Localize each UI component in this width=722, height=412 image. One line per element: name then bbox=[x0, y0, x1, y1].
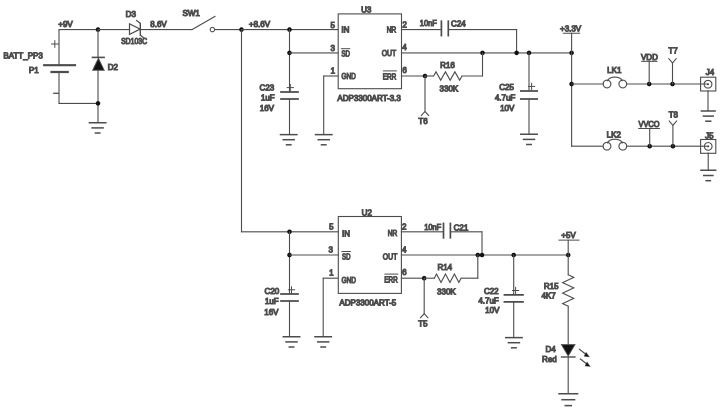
svg-text:4.7uF: 4.7uF bbox=[478, 297, 499, 306]
svg-text:NR: NR bbox=[388, 229, 398, 238]
wire J5 shield to ground bbox=[707, 153, 709, 170]
svg-text:+8.6V: +8.6V bbox=[249, 20, 271, 29]
ground (C22) bbox=[506, 337, 522, 339]
wire C25 to ground bbox=[528, 99, 530, 134]
battery minus marking bbox=[54, 92, 59, 94]
junction node SD branch (U2) bbox=[287, 253, 292, 258]
svg-text:T6: T6 bbox=[418, 117, 428, 126]
junction node R14/OUT bbox=[476, 253, 481, 258]
svg-text:T7: T7 bbox=[668, 47, 678, 56]
svg-text:6: 6 bbox=[402, 66, 407, 75]
svg-text:4: 4 bbox=[402, 43, 407, 52]
svg-text:16V: 16V bbox=[264, 308, 279, 317]
svg-text:4K7: 4K7 bbox=[541, 292, 556, 301]
wire LK2 to J5 bbox=[627, 145, 708, 147]
LED D4 bbox=[562, 345, 575, 356]
svg-text:IN: IN bbox=[342, 229, 350, 238]
wire +3.3V feed down to links bbox=[571, 53, 573, 146]
wire +5V stub bbox=[567, 240, 569, 255]
svg-text:LK2: LK2 bbox=[607, 130, 622, 139]
svg-text:SD: SD bbox=[342, 252, 351, 261]
wire NR pin to C24 bbox=[402, 29, 442, 31]
svg-text:BATT_PP3: BATT_PP3 bbox=[3, 52, 43, 61]
svg-text:VDD: VDD bbox=[641, 53, 658, 62]
wire SD branch to pin 3 bbox=[290, 52, 339, 54]
wire battery negative to ground node bbox=[58, 72, 60, 103]
svg-text:ERR: ERR bbox=[383, 72, 397, 81]
wire J4 shield to ground bbox=[707, 91, 709, 111]
LED D4 light arrows bbox=[580, 349, 586, 354]
svg-text:T8: T8 bbox=[669, 110, 679, 119]
ground (C25) bbox=[521, 133, 537, 135]
wire LK2 row corner bbox=[572, 145, 604, 147]
wire SD branch to U2 pin 3 bbox=[290, 254, 339, 256]
svg-text:8.6V: 8.6V bbox=[150, 20, 167, 29]
ground (J5) bbox=[701, 169, 716, 171]
wire VDD stub bbox=[648, 61, 650, 84]
jumper LK2 bbox=[603, 142, 611, 150]
jumper LK1 bbox=[603, 80, 611, 88]
regulator U2 body bbox=[338, 217, 401, 294]
wire main rail left segment bbox=[59, 29, 98, 31]
wire OUT rail (U2) bbox=[401, 254, 568, 256]
battery P1 bbox=[44, 64, 75, 66]
ground (U2 GND) bbox=[315, 336, 331, 338]
resistor R14 bbox=[424, 277, 434, 279]
junction node C25/OUT bbox=[527, 51, 532, 56]
svg-text:330K: 330K bbox=[440, 84, 459, 93]
svg-text:3: 3 bbox=[330, 44, 335, 53]
svg-text:J4: J4 bbox=[706, 68, 715, 77]
svg-text:+5V: +5V bbox=[561, 231, 576, 240]
diode D3 bbox=[130, 24, 141, 35]
svg-text:IN: IN bbox=[341, 26, 349, 35]
switch SW1 bbox=[192, 16, 215, 29]
ground (U3 GND) bbox=[316, 134, 332, 136]
svg-text:1: 1 bbox=[329, 268, 334, 277]
wire C23 to ground bbox=[289, 99, 291, 135]
svg-text:16V: 16V bbox=[260, 104, 275, 113]
svg-text:5: 5 bbox=[330, 21, 335, 30]
svg-text:NR: NR bbox=[387, 25, 397, 34]
capacitor C25 bbox=[521, 90, 537, 92]
svg-text:C22: C22 bbox=[484, 287, 499, 296]
svg-text:T5: T5 bbox=[418, 320, 428, 329]
junction node T8 bbox=[671, 144, 676, 149]
junction node battery / ground bbox=[96, 101, 101, 106]
svg-text:1: 1 bbox=[331, 67, 336, 76]
junction node +3.3V/OUT bbox=[569, 51, 574, 56]
svg-text:1uF: 1uF bbox=[265, 297, 279, 306]
svg-text:C24: C24 bbox=[451, 20, 466, 29]
svg-text:ADP3300ART-3.3: ADP3300ART-3.3 bbox=[337, 94, 401, 103]
svg-text:+3.3V: +3.3V bbox=[560, 25, 582, 34]
ground (D4) bbox=[559, 393, 578, 395]
wire OUT to C22 bbox=[513, 255, 515, 295]
svg-text:C25: C25 bbox=[499, 83, 514, 92]
wire +3.3V stub bbox=[571, 33, 573, 53]
junction node +8.6V bbox=[239, 27, 244, 32]
wire C20 branch bbox=[289, 232, 291, 294]
wire R14 to OUT rail bbox=[477, 255, 479, 278]
junction node LK1 row bbox=[569, 82, 574, 87]
svg-text:+9V: +9V bbox=[58, 20, 73, 29]
wire rail to U3 pin 5 bbox=[242, 29, 339, 31]
svg-text:C20: C20 bbox=[265, 287, 280, 296]
svg-text:SD: SD bbox=[341, 50, 350, 59]
svg-text:6: 6 bbox=[402, 268, 407, 277]
svg-text:D4: D4 bbox=[545, 345, 556, 354]
wire NR pin to C21 bbox=[401, 231, 443, 233]
svg-text:10nF: 10nF bbox=[424, 223, 441, 232]
resistor R16 bbox=[425, 75, 434, 77]
wire D3 to SW1 bbox=[140, 29, 192, 31]
diode D2 bbox=[93, 56, 105, 58]
wire C22 to ground bbox=[513, 302, 515, 338]
svg-text:4.7uF: 4.7uF bbox=[495, 94, 516, 103]
test point T7 bbox=[672, 63, 674, 84]
wire D4 to ground bbox=[567, 357, 569, 393]
wire C23 branch bbox=[289, 30, 291, 92]
svg-text:LK1: LK1 bbox=[607, 66, 622, 75]
ground (J4) bbox=[701, 110, 715, 112]
svg-text:U3: U3 bbox=[361, 6, 372, 15]
svg-text:330K: 330K bbox=[437, 287, 456, 296]
connector J5 bbox=[701, 140, 716, 154]
capacitor C22 bbox=[504, 294, 523, 296]
test point T8 bbox=[672, 125, 674, 146]
svg-text:2: 2 bbox=[402, 20, 407, 29]
svg-text:GND: GND bbox=[342, 276, 357, 285]
wire +9V rail to battery bbox=[58, 30, 60, 65]
junction node ERR / T5 bbox=[422, 276, 427, 281]
svg-text:10V: 10V bbox=[500, 104, 515, 113]
svg-text:VVCO: VVCO bbox=[639, 120, 660, 129]
wire ERR pin stub bbox=[402, 75, 426, 77]
junction node +5V/OUT bbox=[566, 253, 571, 258]
svg-text:D2: D2 bbox=[108, 63, 119, 72]
battery plus marking bbox=[52, 43, 59, 45]
wire +8.6V feed to U2 bbox=[241, 30, 243, 232]
wire D2 cathode bbox=[97, 30, 99, 58]
svg-text:2: 2 bbox=[402, 222, 407, 231]
svg-text:1uF: 1uF bbox=[261, 94, 275, 103]
svg-text:Red: Red bbox=[542, 355, 557, 364]
svg-text:U2: U2 bbox=[362, 208, 373, 217]
capacitor C23 bbox=[281, 91, 298, 93]
svg-text:10nF: 10nF bbox=[420, 19, 437, 28]
svg-text:C21: C21 bbox=[454, 224, 469, 233]
test point T6 bbox=[424, 76, 426, 112]
wire LK1 to J4 bbox=[627, 83, 708, 85]
junction node C22/OUT bbox=[511, 253, 516, 258]
wire VVCO stub bbox=[649, 129, 651, 147]
junction node C24/OUT bbox=[514, 51, 519, 56]
svg-text:R16: R16 bbox=[440, 61, 455, 70]
svg-text:R14: R14 bbox=[437, 263, 452, 272]
svg-text:SD103C: SD103C bbox=[121, 37, 147, 46]
capacitor C21 bbox=[443, 223, 445, 237]
regulator U3 body bbox=[338, 14, 401, 89]
wire U3 GND pin to ground bbox=[324, 75, 339, 77]
capacitor C24 bbox=[440, 21, 442, 35]
svg-text:R15: R15 bbox=[544, 282, 559, 291]
junction node R16/OUT bbox=[480, 51, 485, 56]
resistor R15 bbox=[567, 255, 569, 275]
wire rail to D3 anode bbox=[98, 29, 130, 31]
svg-text:OUT: OUT bbox=[383, 252, 398, 261]
svg-text:ADP3300ART-5: ADP3300ART-5 bbox=[339, 299, 396, 308]
wire C20 to ground bbox=[289, 301, 291, 337]
junction node VDD bbox=[647, 82, 652, 87]
wire to LK1 bbox=[572, 83, 604, 85]
junction node rail / D2 bbox=[96, 27, 101, 32]
svg-text:ERR: ERR bbox=[384, 276, 398, 285]
svg-text:P1: P1 bbox=[29, 66, 39, 75]
junction node SD branch bbox=[287, 51, 292, 56]
wire C24 to OUT rail bbox=[448, 29, 516, 31]
svg-text:SW1: SW1 bbox=[183, 9, 201, 18]
junction node C20 branch bbox=[287, 230, 292, 235]
wire SW1 to +8.6V node bbox=[215, 29, 242, 31]
wire D2 anode to ground bbox=[97, 70, 99, 122]
ground (C20) bbox=[283, 336, 299, 338]
junction node T7 bbox=[670, 82, 675, 87]
svg-text:J5: J5 bbox=[705, 131, 714, 140]
svg-text:5: 5 bbox=[329, 223, 334, 232]
wire U2 GND pin to ground bbox=[323, 277, 338, 279]
wire C21 to OUT rail bbox=[450, 231, 482, 233]
wire OUT rail bbox=[402, 52, 572, 54]
junction node C21/OUT bbox=[480, 253, 485, 258]
svg-text:OUT: OUT bbox=[382, 49, 397, 58]
wire ERR pin stub (U2) bbox=[401, 277, 424, 279]
wire R16 to OUT rail bbox=[482, 53, 484, 76]
ground (C23) bbox=[281, 134, 297, 136]
svg-text:D3: D3 bbox=[126, 10, 137, 19]
svg-text:C23: C23 bbox=[260, 84, 275, 93]
connector J4 bbox=[701, 77, 716, 91]
junction node ERR / T6 bbox=[423, 74, 428, 79]
junction node VVCO bbox=[647, 144, 652, 149]
wire OUT to C25 bbox=[528, 53, 530, 91]
svg-text:3: 3 bbox=[328, 245, 333, 254]
svg-text:10V: 10V bbox=[485, 306, 500, 315]
svg-text:GND: GND bbox=[341, 72, 356, 81]
test point T5 bbox=[423, 278, 425, 314]
capacitor C20 bbox=[281, 293, 298, 295]
ground (battery/D2) bbox=[89, 122, 105, 124]
svg-text:4: 4 bbox=[402, 245, 407, 254]
junction node C23 branch bbox=[287, 27, 292, 32]
